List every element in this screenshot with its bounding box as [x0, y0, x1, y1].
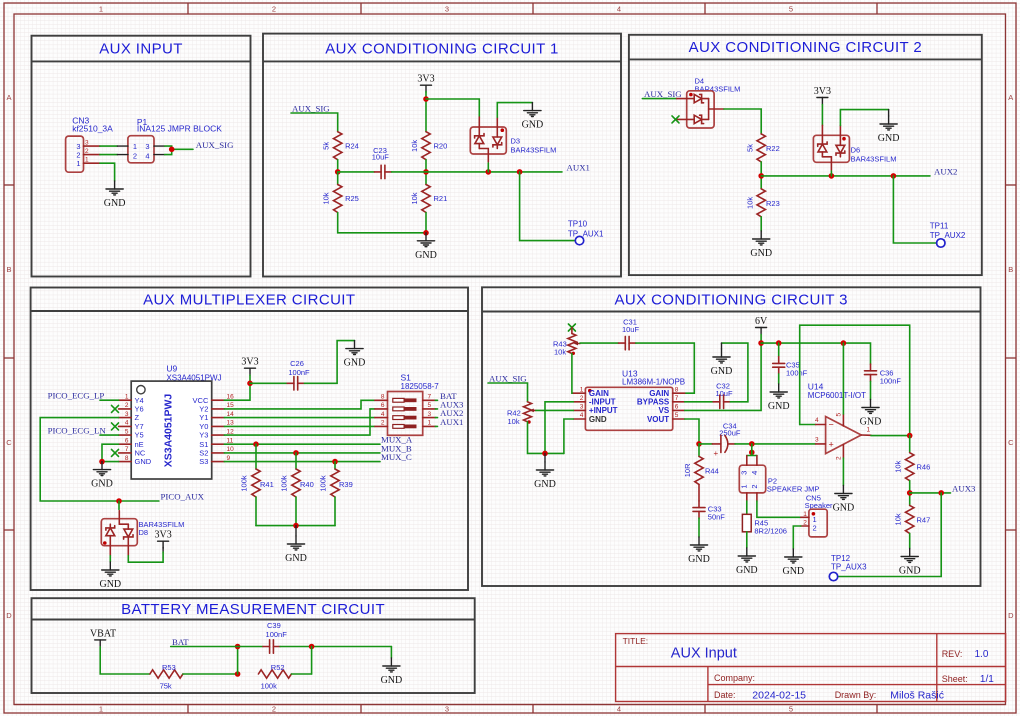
svg-text:MCP6001T-I/OT: MCP6001T-I/OT — [808, 391, 866, 400]
svg-text:Y3: Y3 — [199, 431, 208, 440]
svg-text:A: A — [6, 93, 11, 102]
svg-text:R39: R39 — [339, 480, 353, 489]
ground — [285, 526, 307, 564]
resistor R53 — [150, 663, 183, 690]
wire D6 bottom — [830, 171, 832, 176]
junction C35 — [776, 340, 782, 346]
svg-text:1: 1 — [85, 157, 89, 164]
svg-text:2: 2 — [381, 420, 385, 427]
svg-text:10k: 10k — [554, 347, 566, 356]
svg-text:4: 4 — [125, 420, 129, 427]
feedback wire — [800, 325, 910, 435]
wire VS pin to 6V — [685, 335, 761, 411]
title block — [616, 634, 1006, 702]
ground — [899, 549, 921, 577]
svg-text:AUX2: AUX2 — [934, 166, 957, 176]
svg-text:5: 5 — [836, 413, 843, 417]
capacitor C39 — [263, 621, 287, 653]
ground — [833, 486, 855, 514]
svg-text:10k: 10k — [410, 192, 419, 204]
junction — [542, 451, 548, 457]
wire R43 bottom to U13 pin1 — [572, 354, 574, 394]
wire S1 pin7 + net label BAT — [435, 399, 437, 401]
wire VCC to 3V3 — [224, 375, 250, 400]
wire Y0 to S1 pin2 — [224, 425, 375, 427]
svg-text:R24: R24 — [345, 142, 359, 151]
power 3V3 — [814, 86, 831, 105]
svg-text:Y1: Y1 — [199, 413, 208, 422]
svg-text:6: 6 — [125, 437, 129, 444]
resistor R46 — [894, 436, 931, 506]
junction — [758, 340, 764, 346]
power 3V3 — [417, 74, 434, 93]
svg-text:R42: R42 — [507, 409, 521, 418]
svg-text:3V3: 3V3 — [241, 357, 258, 368]
pin 1 — [84, 162, 100, 164]
svg-text:1: 1 — [99, 705, 103, 714]
svg-text:5: 5 — [789, 5, 793, 14]
svg-text:10k: 10k — [508, 417, 520, 426]
svg-text:BAR43SFILM: BAR43SFILM — [695, 85, 741, 94]
trimmer R42 — [507, 402, 536, 426]
svg-text:Z: Z — [135, 413, 140, 422]
svg-text:AUX3: AUX3 — [952, 483, 976, 493]
svg-text:5: 5 — [428, 402, 432, 409]
svg-text:100k: 100k — [240, 475, 249, 492]
svg-text:INA125 JMPR BLOCK: INA125 JMPR BLOCK — [137, 124, 222, 134]
svg-text:PICO_AUX: PICO_AUX — [161, 492, 205, 502]
capacitor C26 — [250, 359, 310, 390]
svg-text:10k: 10k — [410, 140, 419, 152]
svg-text:2: 2 — [580, 395, 584, 402]
ground — [750, 231, 772, 259]
svg-text:Y0: Y0 — [199, 422, 208, 431]
svg-text:S2: S2 — [199, 449, 208, 458]
svg-text:6V: 6V — [755, 316, 768, 327]
svg-text:3: 3 — [580, 404, 584, 411]
svg-text:LM386M-1/NOPB: LM386M-1/NOPB — [622, 378, 685, 387]
svg-text:2: 2 — [133, 151, 137, 160]
svg-text:2: 2 — [272, 705, 276, 714]
ground — [782, 549, 804, 577]
wire to D3 pin1 — [426, 99, 479, 117]
svg-text:XS3A4051PWJ: XS3A4051PWJ — [163, 394, 175, 468]
svg-text:3V3: 3V3 — [154, 530, 171, 541]
svg-text:Y6: Y6 — [135, 405, 144, 414]
svg-text:S1: S1 — [401, 373, 412, 383]
svg-text:7: 7 — [675, 395, 679, 402]
svg-text:1/1: 1/1 — [980, 674, 994, 685]
resistor R24 — [322, 132, 359, 160]
svg-text:10uF: 10uF — [372, 153, 390, 162]
svg-text:3: 3 — [428, 411, 432, 418]
svg-text:100nF: 100nF — [786, 368, 808, 377]
svg-text:3: 3 — [85, 140, 89, 147]
svg-text:3: 3 — [125, 411, 129, 418]
wire S2-out to MUX_B — [224, 452, 380, 454]
svg-text:8: 8 — [125, 455, 129, 462]
svg-text:AUX1: AUX1 — [440, 417, 463, 427]
wire VOUT — [685, 419, 699, 444]
wire S1 pin5 + net label AUX3 — [435, 408, 437, 410]
wire pin4 — [800, 424, 816, 426]
svg-text:13: 13 — [227, 420, 235, 427]
svg-text:10k: 10k — [746, 197, 755, 209]
test point TP12 — [829, 554, 867, 581]
svg-text:Y4: Y4 — [135, 396, 144, 405]
wire PICO_ECG_LN to pin5 — [100, 434, 119, 436]
ground — [736, 548, 758, 576]
wire R20 to AUX1 line — [425, 160, 427, 185]
wire CN3-3 to P1-1 — [100, 145, 118, 147]
svg-text:A: A — [1008, 93, 1013, 102]
wire S1 pin1 + net label AUX1 — [435, 425, 437, 427]
pin 3 — [84, 145, 100, 147]
wire S1 pin3 + net label AUX2 — [435, 417, 437, 419]
wire AUX2 line — [761, 175, 930, 177]
no-connect pin2 — [112, 405, 119, 412]
wire bottom bus — [256, 525, 335, 527]
resistor R40 — [280, 453, 314, 526]
junction output — [907, 433, 913, 439]
wire C31 to U13 pin8 — [636, 343, 695, 393]
svg-text:Miloš Rašić: Miloš Rašić — [890, 689, 944, 701]
svg-text:R46: R46 — [917, 463, 931, 472]
wire pin5 to 6V rail — [842, 414, 844, 426]
svg-text:−: − — [829, 420, 834, 430]
svg-text:nE: nE — [135, 440, 144, 449]
svg-text:8R2/1206: 8R2/1206 — [754, 526, 787, 535]
svg-text:1: 1 — [133, 142, 137, 151]
wire junction up — [311, 647, 313, 675]
junction — [247, 381, 253, 387]
wire Y3 to S1 pin6 — [224, 409, 375, 435]
ground — [522, 103, 544, 131]
resistor R23 — [746, 189, 780, 217]
wire CN5 pin2 to gnd — [793, 526, 801, 549]
wire to TP10 — [520, 172, 576, 241]
svg-text:1.0: 1.0 — [975, 649, 989, 660]
svg-text:R23: R23 — [766, 199, 780, 208]
svg-text:AUX1: AUX1 — [567, 162, 590, 172]
diode D4 BAR43SFILM — [677, 77, 741, 129]
junction — [293, 523, 299, 529]
svg-text:REV:: REV: — [942, 649, 963, 659]
resistor R44 — [683, 444, 719, 485]
svg-text:4: 4 — [145, 151, 149, 160]
ground — [381, 658, 403, 686]
ic U13 LM386M-1/NOPB — [573, 368, 685, 430]
svg-text:PICO_ECG_LN: PICO_ECG_LN — [48, 426, 107, 436]
svg-text:250uF: 250uF — [719, 429, 741, 438]
svg-text:7: 7 — [125, 446, 129, 453]
resistor R21 — [410, 185, 447, 213]
svg-text:2: 2 — [813, 524, 817, 533]
wire pin2 to gnd — [842, 444, 844, 458]
resistor R22 — [746, 134, 780, 162]
svg-text:1: 1 — [125, 393, 129, 400]
resistor R39 — [319, 462, 353, 526]
wire Y1 to S1 pin4 — [224, 417, 375, 419]
ground — [415, 233, 437, 261]
svg-text:1825058-7: 1825058-7 — [401, 382, 440, 391]
svg-text:U14: U14 — [808, 381, 824, 391]
wire R52 to junction — [291, 673, 311, 675]
wire R43 wiper to C31 — [580, 342, 619, 344]
junction MUX_C — [332, 459, 338, 465]
svg-text:10k: 10k — [894, 513, 903, 525]
wire D4 to R22 — [724, 109, 761, 134]
wire pin3 Z to PICO_AUX — [40, 418, 159, 501]
svg-text:3: 3 — [445, 705, 449, 714]
left pins 1-8 — [119, 400, 132, 461]
wire D3 bottom — [487, 163, 489, 172]
svg-text:AUX_SIG: AUX_SIG — [292, 104, 330, 114]
wire R25 to bottom rail — [338, 213, 426, 233]
wire to gnd — [390, 647, 392, 659]
wire R24 to junction — [337, 160, 339, 172]
svg-text:TP_AUX2: TP_AUX2 — [930, 231, 966, 240]
svg-text:5: 5 — [675, 412, 679, 419]
wire 3V3 to D6 — [821, 105, 823, 126]
svg-text:BATTERY MEASUREMENT CIRCUIT: BATTERY MEASUREMENT CIRCUIT — [121, 601, 385, 618]
svg-text:1: 1 — [428, 420, 432, 427]
svg-text:4: 4 — [815, 417, 819, 424]
power VBAT — [90, 628, 116, 647]
wire AUX_SIG to D4 — [642, 98, 676, 100]
svg-text:15: 15 — [227, 402, 235, 409]
svg-text:3V3: 3V3 — [814, 86, 831, 97]
svg-text:Date:: Date: — [714, 690, 736, 700]
wire to P2 pins — [747, 444, 757, 456]
diode D6 BAR43SFILM — [813, 125, 896, 170]
junction U14 pin5 — [841, 340, 847, 346]
svg-text:AUX_SIG: AUX_SIG — [644, 89, 682, 99]
wire pin3 — [752, 443, 816, 445]
wire R53 to junction — [183, 673, 238, 675]
svg-text:R22: R22 — [766, 144, 780, 153]
svg-text:D: D — [6, 611, 12, 620]
svg-text:Y7: Y7 — [135, 422, 144, 431]
wire VBAT to R53 — [100, 647, 150, 674]
wire AUX_SIG to R24 — [291, 113, 338, 132]
svg-text:C: C — [6, 438, 12, 447]
junction — [423, 96, 429, 102]
svg-text:100nF: 100nF — [880, 376, 902, 385]
resistor R20 — [410, 132, 447, 160]
svg-text:AUX_SIG: AUX_SIG — [196, 140, 234, 150]
svg-text:9: 9 — [227, 455, 231, 462]
svg-text:1: 1 — [76, 159, 80, 168]
svg-text:S3: S3 — [199, 457, 208, 466]
svg-text:S1: S1 — [199, 440, 208, 449]
svg-text:3: 3 — [740, 471, 749, 475]
svg-text:4: 4 — [617, 705, 621, 714]
junction — [235, 671, 241, 677]
wire P1 outputs join — [165, 146, 193, 155]
wire AUX3 to TP12 — [838, 493, 942, 577]
svg-text:1: 1 — [813, 515, 817, 524]
svg-text:100nF: 100nF — [266, 630, 288, 639]
svg-text:Sheet:: Sheet: — [942, 674, 968, 684]
resistor R52 — [258, 663, 291, 690]
svg-text:D: D — [1008, 611, 1014, 620]
wire pin6 nE to gnd — [102, 444, 119, 461]
svg-text:5: 5 — [125, 428, 129, 435]
ground — [860, 400, 882, 428]
svg-text:6: 6 — [381, 402, 385, 409]
capacitor C35 — [773, 343, 808, 384]
svg-text:R41: R41 — [260, 480, 274, 489]
resistor R45 8R2/1206 — [742, 501, 787, 548]
svg-text:TP11: TP11 — [930, 221, 949, 230]
svg-text:2: 2 — [836, 456, 843, 460]
svg-text:2: 2 — [750, 485, 759, 489]
svg-text:10k: 10k — [322, 192, 331, 204]
svg-text:AUX INPUT: AUX INPUT — [99, 41, 183, 58]
capacitor C32 — [685, 382, 733, 409]
svg-text:R25: R25 — [345, 194, 359, 203]
wire Y2 to S1 pin8 — [224, 400, 375, 409]
svg-text:AUX_SIG: AUX_SIG — [489, 373, 527, 383]
wire R42 bottom — [528, 422, 564, 454]
capacitor C33 — [693, 484, 725, 537]
svg-text:7: 7 — [428, 394, 432, 401]
svg-text:BAT: BAT — [172, 637, 189, 647]
no-connect pin7 — [112, 449, 119, 456]
junction TP branch — [891, 173, 897, 179]
svg-text:R52: R52 — [271, 663, 285, 672]
svg-text:6: 6 — [675, 404, 679, 411]
ground — [534, 453, 556, 490]
wire PICO_AUX to D8 — [118, 501, 120, 510]
junction TP branch — [517, 169, 523, 175]
svg-text:50nF: 50nF — [708, 512, 726, 521]
power 3V3 — [154, 530, 171, 552]
svg-text:10k: 10k — [894, 460, 903, 472]
wire S3-out to MUX_C — [224, 461, 380, 463]
svg-text:10: 10 — [227, 446, 235, 453]
junction C34 right — [749, 441, 755, 447]
pin 2 — [84, 154, 100, 156]
diode D8 BAR43SFILM — [101, 511, 184, 556]
svg-text:Company:: Company: — [714, 673, 755, 683]
switch S1 1825058-7 — [375, 373, 439, 436]
svg-text:C39: C39 — [267, 621, 281, 630]
svg-text:D6: D6 — [851, 146, 861, 155]
svg-text:+: + — [829, 440, 834, 450]
junction — [99, 459, 105, 465]
svg-text:2: 2 — [125, 402, 129, 409]
junction MUX_B — [293, 450, 299, 456]
wire C32 to gnd — [722, 343, 748, 402]
resistor R25 — [322, 172, 359, 213]
wire D8 right pin to 3V3 — [128, 552, 163, 562]
ground — [688, 537, 710, 565]
svg-text:SPEAKER JMP: SPEAKER JMP — [767, 485, 820, 494]
wire R22 to AUX2 line — [760, 162, 762, 189]
svg-text:AUX MULTIPLEXER CIRCUIT: AUX MULTIPLEXER CIRCUIT — [143, 292, 355, 309]
junction P2 tap — [749, 450, 755, 456]
ground — [768, 384, 790, 412]
connector CN3 kf2510_3A — [66, 116, 114, 173]
wire S1-out to MUX_A — [224, 443, 380, 445]
svg-text:1: 1 — [803, 511, 807, 518]
svg-text:TP10: TP10 — [568, 220, 588, 229]
svg-text:TITLE:: TITLE: — [623, 636, 649, 646]
wire PICO_ECG_LP to pin1 — [100, 399, 119, 401]
wire U13 GND pin — [564, 419, 574, 453]
junction MUX_A — [253, 441, 259, 447]
capacitor C34 250uF polarized — [699, 421, 752, 458]
wire R42 wiper to +INPUT — [536, 409, 574, 411]
jumper P1 INA125 JMPR BLOCK — [117, 117, 222, 163]
svg-text:3: 3 — [145, 142, 149, 151]
capacitor C23 — [338, 146, 426, 178]
junction — [116, 498, 122, 504]
svg-text:3: 3 — [815, 436, 819, 443]
op-amp U14 MCP6001T-I/OT — [808, 381, 866, 453]
svg-text:GND: GND — [589, 415, 607, 424]
svg-text:2024-02-15: 2024-02-15 — [752, 689, 806, 701]
diode D3 BAR43SFILM — [470, 117, 556, 162]
svg-text:kf2510_3A: kf2510_3A — [72, 124, 113, 134]
svg-text:R47: R47 — [917, 515, 931, 524]
svg-text:AUX CONDITIONING CIRCUIT 3: AUX CONDITIONING CIRCUIT 3 — [614, 292, 847, 309]
svg-text:3: 3 — [445, 5, 449, 14]
svg-text:Drawn By:: Drawn By: — [835, 690, 877, 700]
svg-text:4: 4 — [381, 411, 385, 418]
wire AUX1 line — [426, 171, 562, 173]
junction — [423, 230, 429, 236]
no-connect X on D4 pin — [672, 116, 679, 123]
svg-text:2: 2 — [272, 5, 276, 14]
svg-text:AUX CONDITIONING CIRCUIT 2: AUX CONDITIONING CIRCUIT 2 — [689, 39, 922, 56]
wire BAT line — [171, 646, 263, 648]
svg-text:5: 5 — [789, 705, 793, 714]
no-connect R43 top — [568, 324, 575, 331]
svg-text:12: 12 — [227, 428, 235, 435]
svg-text:Y5: Y5 — [135, 431, 144, 440]
ground — [91, 462, 113, 490]
svg-text:3V3: 3V3 — [417, 74, 434, 85]
svg-text:100k: 100k — [280, 475, 289, 492]
svg-text:1: 1 — [740, 485, 749, 489]
junction — [423, 169, 429, 175]
svg-text:5k: 5k — [322, 142, 331, 150]
svg-text:100k: 100k — [319, 475, 328, 492]
svg-text:8: 8 — [381, 394, 385, 401]
svg-text:+: + — [714, 449, 719, 458]
wire D6 right pin to gnd — [840, 110, 888, 126]
svg-text:16: 16 — [227, 393, 235, 400]
wire R23 to ground — [760, 217, 762, 231]
svg-text:TP_AUX3: TP_AUX3 — [831, 562, 867, 571]
svg-text:Y2: Y2 — [199, 405, 208, 414]
jumper P2 SPEAKER JMP — [739, 456, 819, 502]
junction — [309, 644, 315, 650]
test point TP11 — [930, 221, 966, 247]
svg-text:2: 2 — [76, 151, 80, 160]
svg-text:C26: C26 — [290, 359, 304, 368]
svg-text:1: 1 — [867, 427, 871, 434]
svg-text:B: B — [6, 265, 11, 274]
svg-text:VCC: VCC — [193, 396, 209, 405]
svg-text:100nF: 100nF — [288, 368, 310, 377]
svg-text:4: 4 — [617, 5, 621, 14]
wire junction up — [237, 647, 239, 675]
svg-text:R21: R21 — [434, 194, 448, 203]
